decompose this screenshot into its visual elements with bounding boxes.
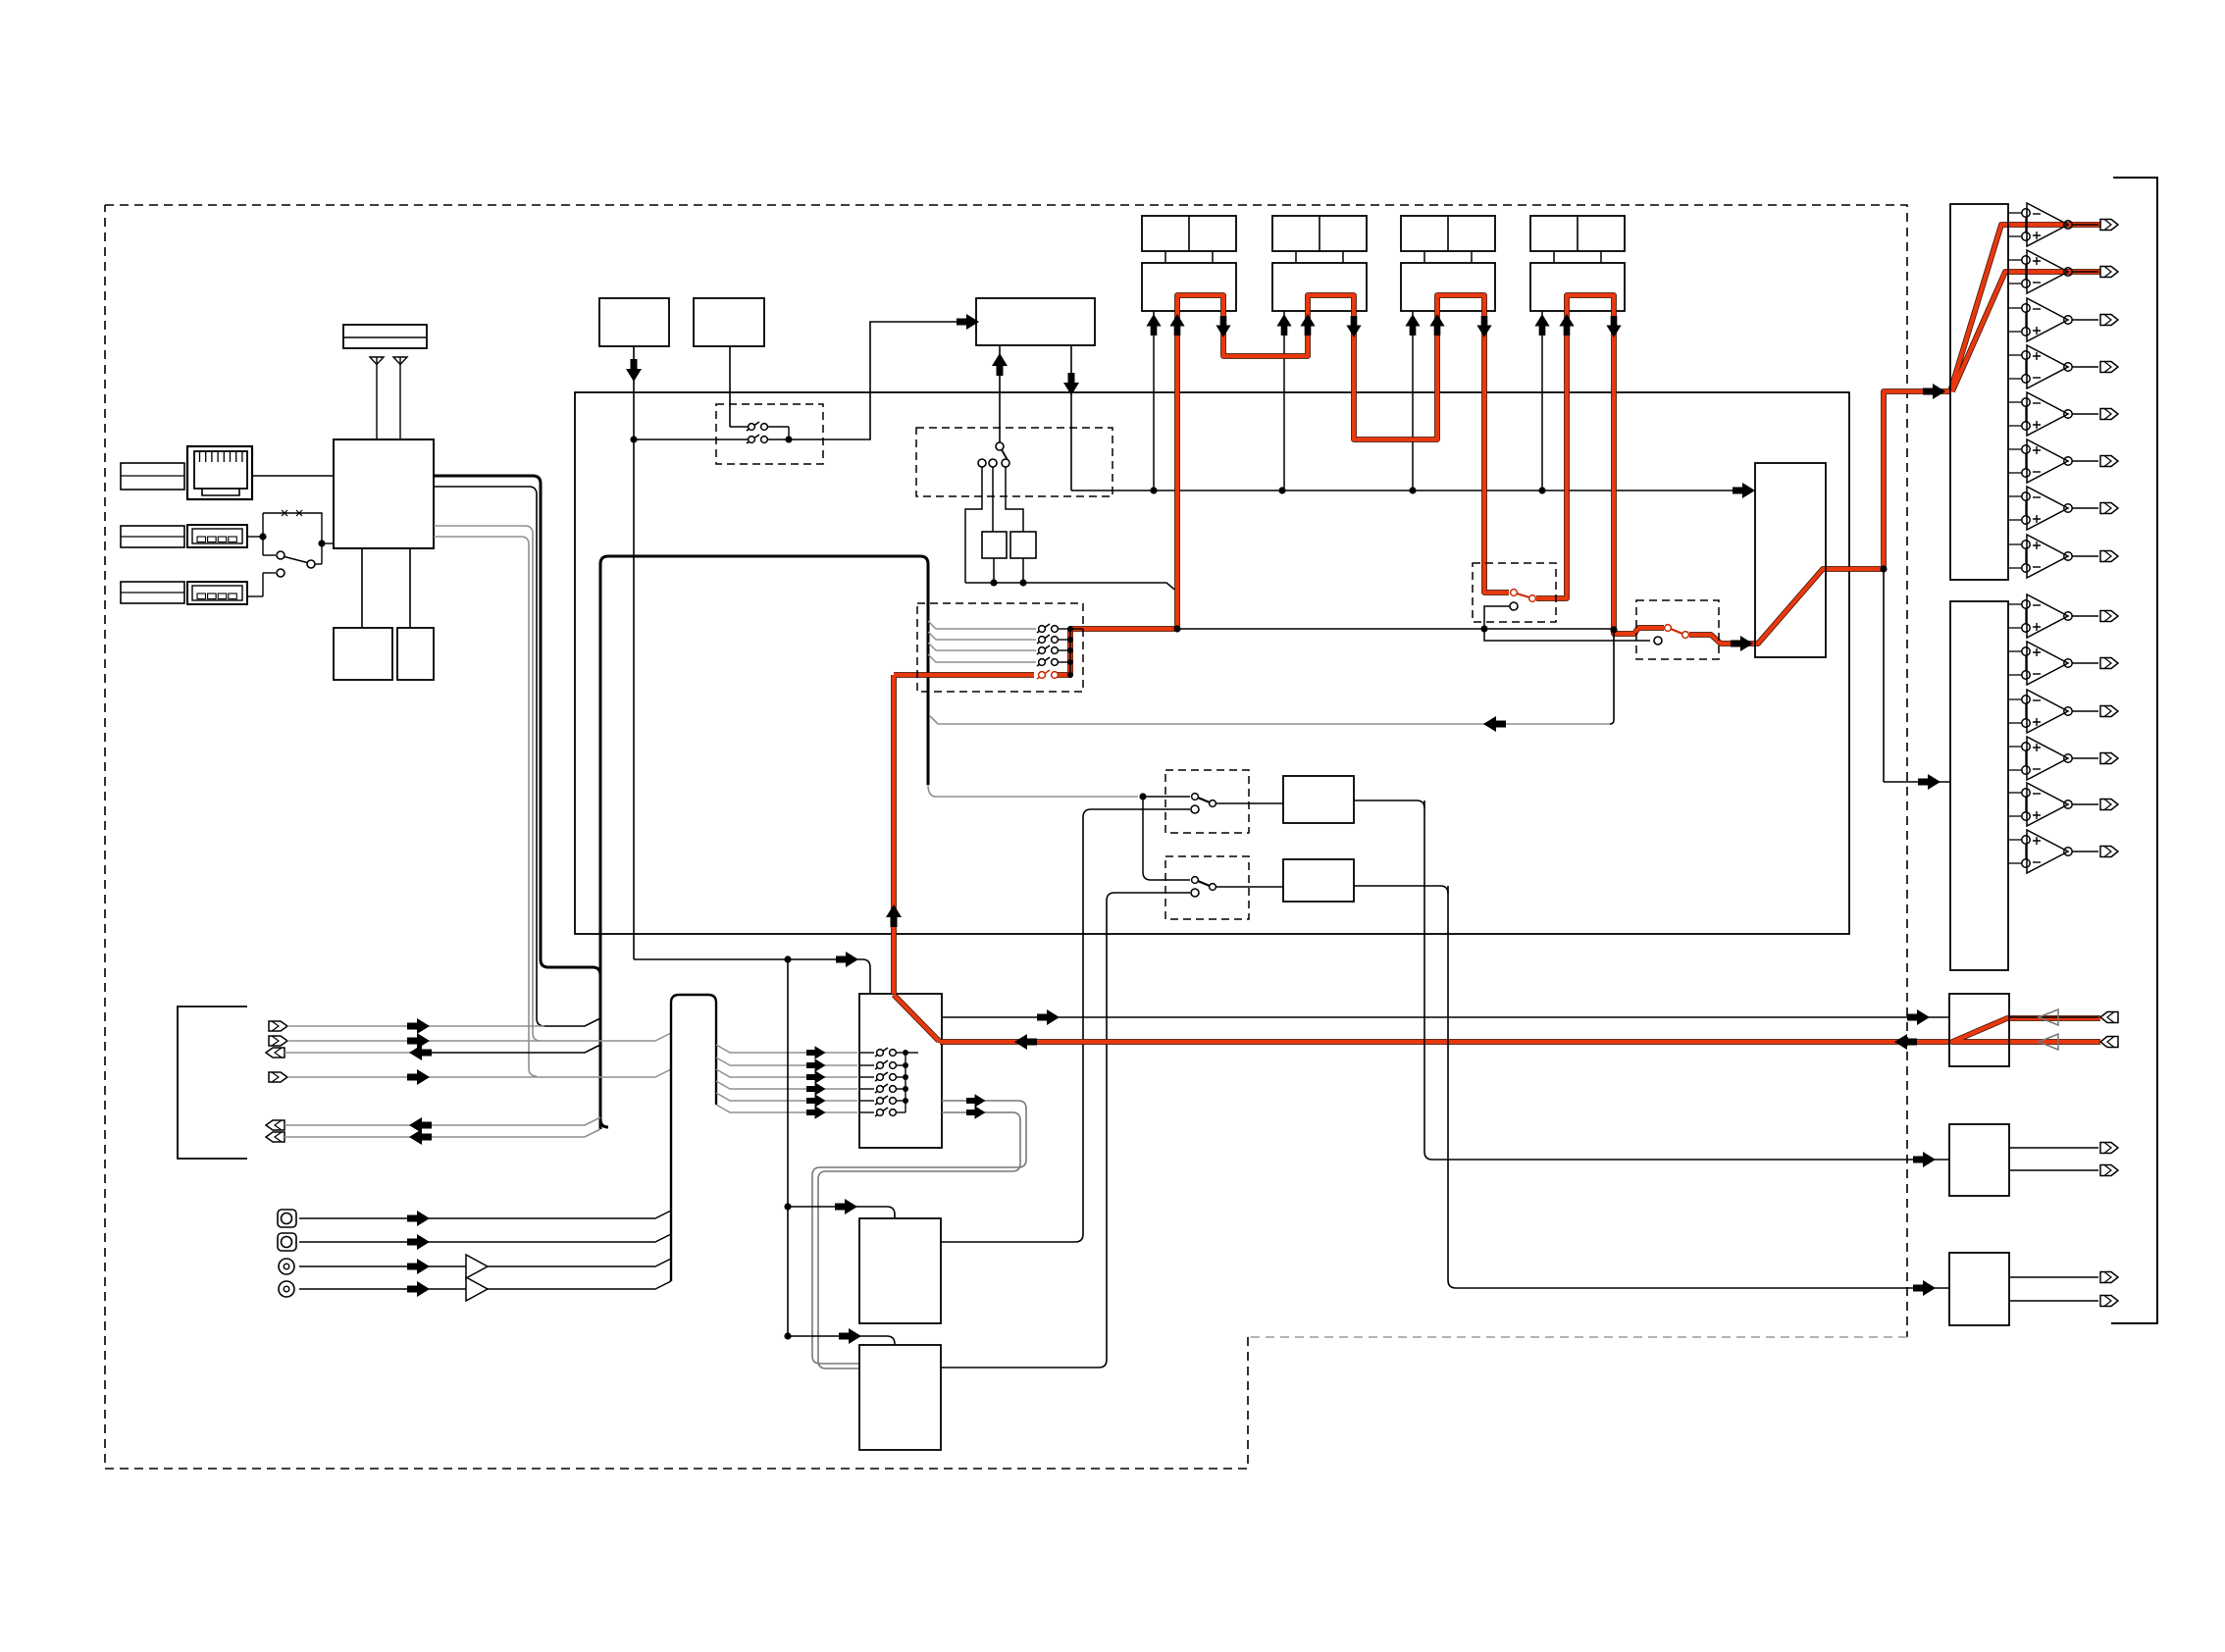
gray dashed segment bottom-right bbox=[1248, 1336, 1907, 1338]
HDMI block 3 status line bbox=[1412, 311, 1414, 490]
RCA input R bbox=[279, 1281, 294, 1297]
antenna terminal box bbox=[343, 325, 427, 348]
headphone amp box bbox=[1949, 994, 2009, 1066]
HDMI block 2 lower box bbox=[1272, 263, 1367, 311]
USB select ferrite loop bbox=[247, 536, 263, 538]
D2 left contact path bbox=[965, 467, 982, 583]
DAC block 1 bbox=[1950, 204, 2008, 580]
HDMI block 1 lower box bbox=[1142, 263, 1236, 311]
record processor R2 bbox=[1283, 859, 1354, 902]
op-amp output channel at y=773 bbox=[2008, 746, 2022, 748]
op-amp output channel at y=326 bbox=[2008, 307, 2022, 309]
junction on y448 bus bbox=[630, 436, 637, 442]
SoC to sub-box2 stub bbox=[409, 548, 411, 628]
HDMI block 2 top box bbox=[1272, 216, 1367, 251]
antenna lead 2 bbox=[399, 357, 401, 439]
connector row E (out) bbox=[266, 1120, 285, 1130]
dashed border bottom/left bbox=[105, 205, 1248, 1469]
op-amp output channel at y=470 bbox=[2008, 448, 2022, 450]
headphone black input line bbox=[942, 1016, 1949, 1018]
red switch S1 bbox=[1511, 590, 1536, 602]
D2 mid contact to osc1 bbox=[992, 467, 994, 532]
op-amp output channel at y=374 bbox=[2008, 354, 2022, 356]
USB connector 1 bbox=[187, 525, 247, 547]
oscillator rail bbox=[965, 583, 1178, 593]
taps on bus x=612 bbox=[544, 1018, 600, 1026]
record processor R1 bbox=[1283, 776, 1354, 823]
DSP sub block K2 bbox=[859, 1345, 941, 1450]
dashed switch box D1 bbox=[716, 404, 823, 464]
branch junction bbox=[784, 955, 791, 962]
input selector box bbox=[859, 994, 942, 1148]
DSP sub block K1 bbox=[859, 1218, 941, 1323]
HDMI block 3 lower box bbox=[1401, 263, 1495, 311]
box C output line down bbox=[1070, 345, 1072, 490]
dashed switch box S1 bbox=[1473, 563, 1556, 622]
oscillator box 2 bbox=[1010, 532, 1036, 558]
SoC to sub-box1 stub bbox=[361, 548, 363, 628]
arrow on red return bbox=[1014, 1034, 1037, 1050]
RB lower contact bbox=[1191, 889, 1199, 897]
HDMI block 3 top box bbox=[1401, 216, 1495, 251]
headphone out lines bbox=[2009, 1016, 2098, 1018]
selector to DAC2 bbox=[1880, 565, 1887, 572]
branch to block K1 bbox=[788, 1207, 895, 1218]
op-amp output channel at y=518 bbox=[2008, 495, 2022, 497]
speaker bracket bbox=[178, 1007, 247, 1159]
DAC block 2 bbox=[1950, 601, 2008, 970]
box A control line bbox=[633, 346, 635, 959]
fan-out to input selector rows bbox=[716, 1045, 857, 1053]
connector row A bbox=[269, 1021, 287, 1031]
op-amp output channel at y=277 bbox=[2008, 259, 2022, 261]
analog input bus bbox=[671, 995, 716, 1281]
AM antenna symbol bbox=[393, 357, 407, 365]
op-amp output channel at y=725 bbox=[2008, 698, 2022, 700]
record-out pair routing bbox=[812, 1101, 1026, 1364]
branch bus to DSP sub-blocks bbox=[787, 959, 789, 1336]
D3 common bbox=[1069, 629, 1071, 675]
record bus branch bbox=[1139, 793, 1146, 800]
USB2 label box bbox=[121, 582, 184, 603]
dashed record switch box RB bbox=[1165, 856, 1249, 919]
box A (clock) bbox=[599, 298, 669, 346]
oscillator box 1 bbox=[982, 532, 1007, 558]
dashed switch box D2 bbox=[916, 428, 1112, 496]
arrow into output selector bbox=[1731, 636, 1753, 651]
red switch S2 bbox=[1665, 625, 1689, 639]
R1 output to x=1452 bbox=[1354, 800, 1424, 808]
feedback junction bbox=[1610, 626, 1617, 633]
dashed switch box S2 bbox=[1636, 600, 1719, 659]
USB select switch bbox=[262, 513, 264, 555]
buffer amp L bbox=[466, 1255, 488, 1278]
clock line to box C bbox=[789, 322, 957, 439]
D2 right contact to osc2 bbox=[1006, 467, 1023, 532]
zone-out input bbox=[1448, 886, 1949, 1288]
S1 lower contact bbox=[1510, 602, 1518, 610]
D3 gray rows with taps from thick bus bbox=[928, 621, 1036, 629]
sub block 2 bbox=[397, 628, 434, 680]
RA record switch bbox=[1192, 794, 1216, 807]
RJ45 to SoC wire bbox=[252, 475, 334, 477]
RA lower contact bbox=[1191, 805, 1199, 813]
feedback monitor line y=738 bbox=[930, 716, 1610, 724]
op-amp output channel at y=229 bbox=[2008, 212, 2022, 214]
op-amp output channel at y=567 bbox=[2008, 543, 2022, 545]
HDMI block 4 top box bbox=[1530, 216, 1625, 251]
arrow into selector control bbox=[836, 952, 858, 967]
line out box bbox=[1949, 1124, 2009, 1196]
branch to block K2 bbox=[788, 1336, 895, 1345]
K2 return loop bbox=[941, 893, 1190, 1368]
RCA input L bbox=[279, 1259, 294, 1274]
clock bus y=500 bbox=[1071, 490, 1733, 491]
thick DSP routing net bbox=[600, 556, 928, 1129]
line-out input bbox=[1424, 800, 1949, 1160]
red signal path bbox=[894, 995, 939, 1041]
FM antenna symbol bbox=[370, 357, 384, 365]
output selector box bbox=[1755, 463, 1826, 657]
op-amp output channel at y=868 bbox=[2008, 839, 2022, 841]
selector common bus bbox=[905, 1053, 906, 1112]
USB connector 2 bbox=[187, 582, 247, 604]
HDMI block 4 status line bbox=[1541, 311, 1543, 490]
D2 switch bbox=[1000, 446, 1008, 460]
ferrite bead marks bbox=[282, 510, 287, 516]
buffer amp R bbox=[466, 1277, 488, 1301]
HDMI block 2 status line bbox=[1283, 311, 1285, 490]
dashed record switch box RA bbox=[1165, 770, 1249, 833]
headphone buffer triangles bbox=[2039, 1009, 2058, 1025]
S2 lower contact bbox=[1654, 637, 1662, 645]
D1 switch row1 bbox=[730, 426, 748, 428]
op-amp output channel at y=422 bbox=[2008, 401, 2022, 403]
right bracket frame bbox=[2111, 178, 2157, 1323]
R2 output to x=1476 bbox=[1354, 886, 1448, 894]
USB1 label box bbox=[121, 526, 184, 547]
arrow into DAC1 bbox=[1923, 384, 1945, 399]
HDMI block 1 status line bbox=[1153, 311, 1155, 490]
box C bbox=[976, 298, 1095, 345]
connector row B bbox=[269, 1036, 287, 1046]
box B output bbox=[729, 346, 731, 427]
RJ45 jack bbox=[187, 446, 252, 499]
RB record switch bbox=[1192, 877, 1216, 891]
zone out box bbox=[1949, 1253, 2009, 1325]
monitor line y641 east segment bbox=[1484, 628, 1614, 630]
network terminal label box bbox=[121, 463, 184, 490]
selector switches bbox=[875, 1048, 896, 1057]
op-amp output channel at y=676 bbox=[2008, 650, 2022, 652]
connector row D bbox=[269, 1072, 287, 1082]
box C input line with up arrow bbox=[999, 345, 1001, 442]
connector row C (out) bbox=[266, 1048, 285, 1058]
red switch in D3 bbox=[1037, 670, 1058, 679]
HDMI block 1 top box bbox=[1142, 216, 1236, 251]
antenna box midline bbox=[343, 336, 427, 338]
line to S2 lower contact bbox=[1484, 629, 1650, 641]
connector row F (out) bbox=[266, 1132, 285, 1142]
sub block 1 bbox=[334, 628, 392, 680]
phones/mic jack 2 bbox=[278, 1233, 296, 1251]
K1 return loop bbox=[941, 809, 1190, 1242]
dashed chassis border bbox=[105, 205, 1907, 1337]
arrow up on red vertical bbox=[886, 904, 902, 927]
op-amp output channel at y=628 bbox=[2008, 603, 2022, 605]
main SoC / tuner block bbox=[334, 439, 434, 548]
SoC output bus lines bbox=[434, 476, 608, 1127]
op-amp output channel at y=820 bbox=[2008, 792, 2022, 794]
dashed selector box D3 bbox=[917, 603, 1083, 692]
control line to selector top bbox=[634, 959, 870, 994]
D1 switch row2 bbox=[634, 439, 748, 440]
feed to RB upper contact bbox=[1143, 797, 1190, 880]
antenna lead 1 bbox=[376, 357, 378, 439]
box B (crystal) bbox=[694, 298, 764, 346]
monitor line y641 bbox=[1177, 628, 1484, 630]
digital section boundary rect bbox=[575, 392, 1849, 934]
HDMI block 4 lower box bbox=[1530, 263, 1625, 311]
phones/mic jack 1 bbox=[278, 1210, 296, 1227]
